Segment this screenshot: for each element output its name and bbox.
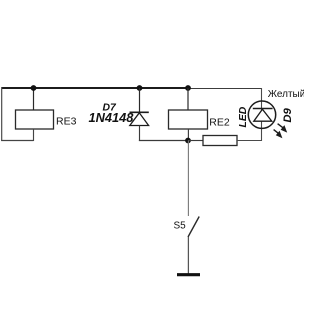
wire switch to ground — [187, 237, 189, 274]
wire top rail thin segment to LED — [188, 88, 262, 90]
wire junction to resistor — [188, 140, 203, 142]
wire resistor to LED — [237, 128, 262, 141]
wire net from D7 to junction — [139, 140, 188, 142]
svg-text:S5: S5 — [174, 220, 187, 231]
svg-text:Желтый: Желтый — [268, 89, 304, 100]
node junction on rail at RE3 — [31, 85, 37, 91]
wire bottom-left horizontal — [1, 140, 33, 142]
wire D7 cathode lead — [139, 88, 141, 112]
switch S5 blade — [188, 217, 199, 238]
resistor — [203, 136, 237, 146]
wire RE2 top lead — [187, 88, 189, 110]
wire left vertical — [1, 87, 3, 141]
svg-text:D9: D9 — [282, 107, 294, 122]
node junction on rail at RE2 — [185, 85, 191, 91]
svg-text:LED: LED — [238, 106, 249, 127]
svg-text:RE2: RE2 — [209, 117, 230, 129]
LED D9 — [248, 101, 275, 128]
relay coil RE3 — [16, 110, 54, 129]
LED light arrow 2 — [274, 130, 283, 139]
wire RE3 top lead — [33, 88, 35, 110]
LED light arrow 1 — [278, 124, 288, 133]
node junction under RE2 — [185, 138, 191, 144]
svg-text:1N4148: 1N4148 — [89, 110, 135, 125]
svg-text:RE3: RE3 — [56, 116, 77, 128]
wire D7 anode lead down — [139, 126, 141, 142]
ground — [177, 273, 200, 276]
node junction on rail at D7 — [137, 85, 143, 91]
wire rail down to LED — [261, 88, 263, 129]
relay coil RE2 — [169, 110, 208, 129]
wire top rail — [2, 87, 188, 89]
wire RE2 bottom lead — [187, 129, 189, 141]
wire junction down to switch — [187, 141, 189, 217]
diode D7 1N4148 — [130, 112, 149, 125]
wire RE3 bottom lead — [33, 129, 35, 141]
